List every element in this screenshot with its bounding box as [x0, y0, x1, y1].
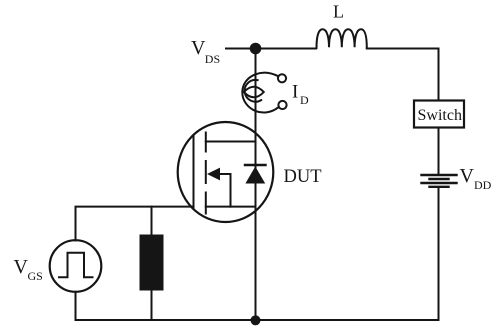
- current probe lens arrow: [244, 87, 264, 98]
- svg-text:DUT: DUT: [284, 167, 322, 187]
- node VDS junction dot: [250, 43, 262, 55]
- inductor L: [317, 29, 367, 48]
- battery VDD: [422, 175, 457, 187]
- svg-text:L: L: [333, 2, 344, 22]
- current probe terminal top: [278, 74, 286, 82]
- body diode cathode bar: [245, 164, 266, 166]
- MOSFET source connection: [206, 206, 256, 208]
- svg-text:V: V: [191, 37, 206, 59]
- MOSFET drain connection: [206, 141, 256, 143]
- MOSFET channel dash middle: [205, 161, 207, 183]
- svg-text:DD: DD: [474, 178, 492, 192]
- wire VGS source to bottom rail: [75, 292, 77, 320]
- MOSFET channel dash bottom: [205, 193, 207, 214]
- MOSFET body arrow: [207, 168, 220, 181]
- svg-text:DS: DS: [205, 52, 220, 66]
- wire top-left from VDS label to inductor: [226, 48, 316, 50]
- wire inductor to top-right corner and down to switch: [367, 49, 439, 101]
- svg-text:D: D: [300, 93, 309, 107]
- svg-text:V: V: [460, 165, 475, 187]
- current probe inner jaw: [245, 80, 262, 102]
- wire resistor top lead: [151, 207, 153, 235]
- voltage source VGS circle: [50, 240, 102, 292]
- pulse waveform symbol: [59, 253, 93, 277]
- MOSFET channel dash top: [205, 133, 207, 152]
- junction dot bottom: [251, 315, 261, 325]
- svg-text:Switch: Switch: [418, 107, 462, 124]
- wire gate lead to left: [76, 207, 194, 241]
- wire resistor bottom lead: [151, 291, 153, 321]
- MOSFET gate line: [193, 135, 195, 209]
- wire switch to battery: [438, 128, 440, 175]
- wire main vertical drain/source: [255, 49, 257, 321]
- current probe terminal bottom: [278, 101, 286, 109]
- MOSFET body-source link: [220, 174, 231, 207]
- MOSFET DUT body circle: [178, 122, 274, 222]
- gate resistor body: [140, 235, 164, 291]
- svg-text:I: I: [292, 82, 298, 103]
- svg-text:GS: GS: [28, 269, 43, 283]
- svg-text:V: V: [14, 256, 29, 278]
- switch box: [414, 101, 464, 128]
- wire battery down and bottom rail: [76, 187, 439, 320]
- current probe clamp outer jaw with leads: [242, 73, 278, 113]
- body diode triangle: [245, 167, 265, 184]
